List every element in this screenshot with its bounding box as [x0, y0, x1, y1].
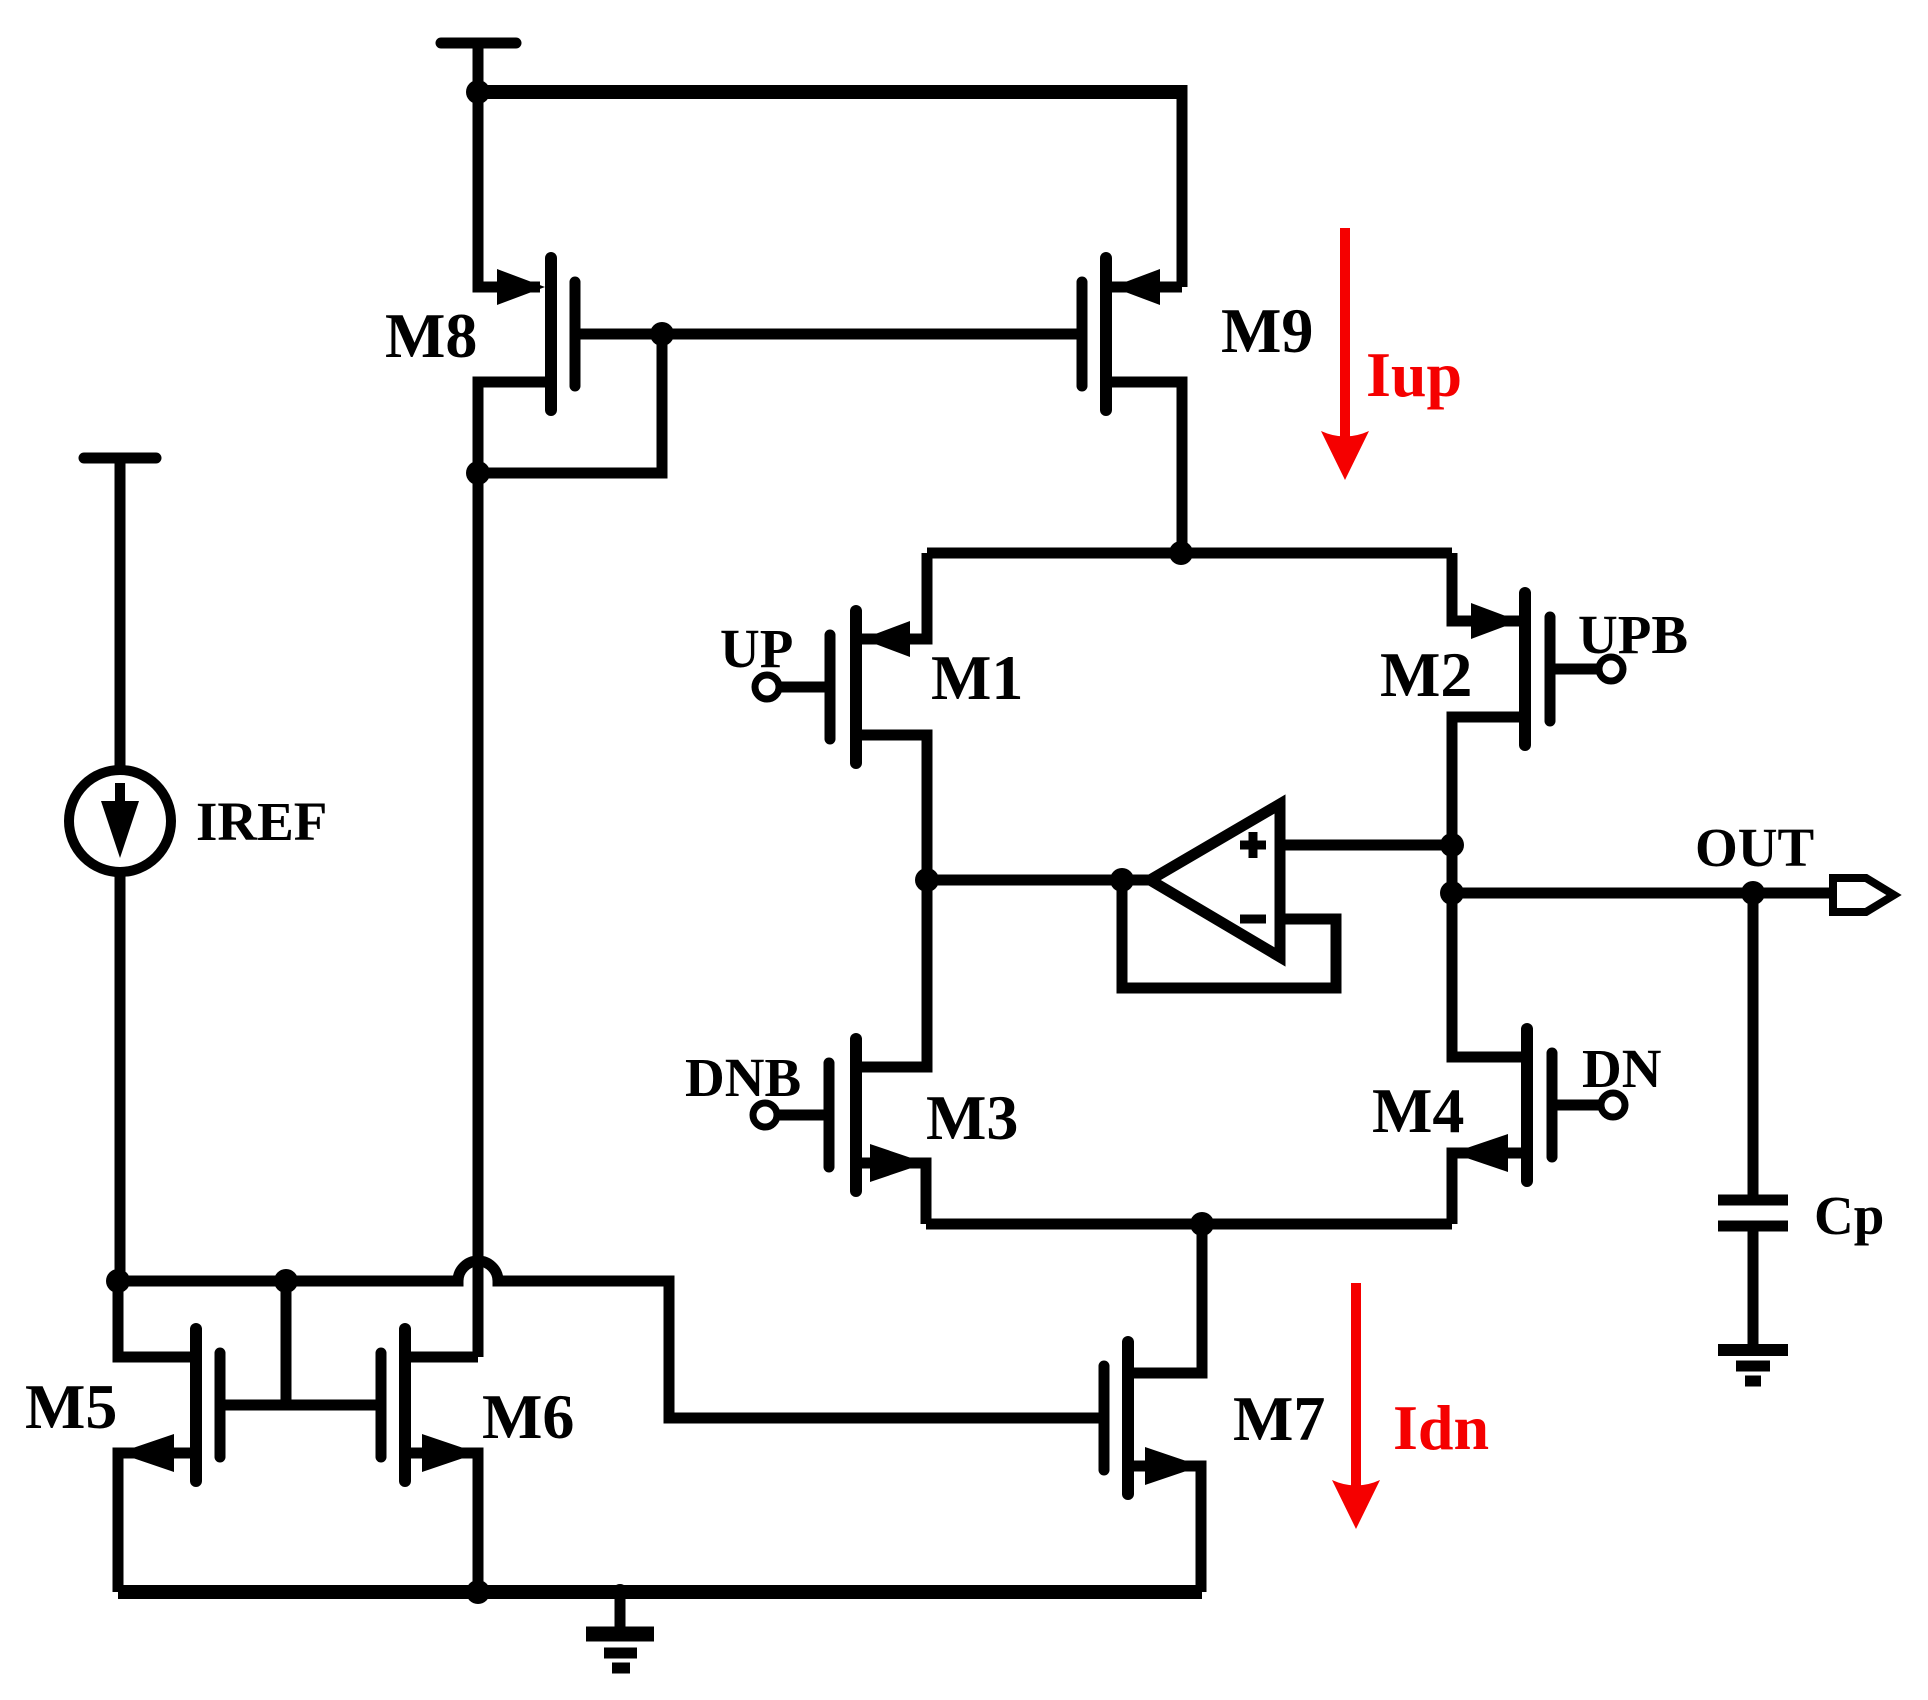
svg-text:M4: M4: [1372, 1075, 1464, 1146]
junction plus input node: [1440, 833, 1464, 857]
wire M2 source: [1452, 553, 1519, 621]
junction VDD rail node: [466, 80, 490, 104]
current arrow Idn: [1332, 1283, 1380, 1529]
wire M9 source: [1112, 282, 1182, 293]
transistor M2: [1471, 593, 1550, 745]
wire op-amp plus input: [1280, 840, 1452, 851]
transistor M7: [1104, 1342, 1201, 1494]
ground main: [586, 1584, 654, 1668]
wire M3 drain column: [862, 880, 927, 1067]
svg-text:Idn: Idn: [1393, 1392, 1489, 1463]
svg-text:OUT: OUT: [1695, 817, 1814, 878]
svg-text:M5: M5: [25, 1371, 117, 1442]
transistor M5: [118, 1329, 220, 1481]
wire op-amp feedback: [1122, 886, 1336, 988]
wire ground rail: [118, 1585, 1202, 1599]
svg-text:UPB: UPB: [1578, 604, 1688, 665]
current source IREF: [69, 770, 171, 872]
svg-text:Iup: Iup: [1366, 339, 1462, 410]
wire M4 drain: [1452, 893, 1521, 1057]
wire M9 drain: [1112, 382, 1182, 553]
junction tail node: [1190, 1212, 1214, 1236]
svg-text:M7: M7: [1233, 1383, 1325, 1454]
junction op-amp output node: [915, 868, 939, 892]
wire Cp bottom: [1748, 1226, 1759, 1349]
wire M5-M6 gate tee: [220, 1281, 381, 1405]
wire M3 gate: [778, 1110, 829, 1121]
op-amp U1: [1150, 804, 1280, 957]
wire M4 gate: [1552, 1100, 1601, 1111]
svg-text:Cp: Cp: [1814, 1185, 1884, 1246]
svg-text:M9: M9: [1221, 295, 1313, 366]
transistor M6: [381, 1329, 478, 1481]
svg-text:DN: DN: [1582, 1038, 1661, 1099]
transistor M9: [1082, 258, 1160, 410]
junction M5-M6 gate tap: [274, 1269, 298, 1293]
svg-text:M1: M1: [931, 642, 1023, 713]
terminal DN: [1601, 1093, 1625, 1117]
junction OUT node: [1440, 881, 1464, 905]
svg-text:M6: M6: [482, 1381, 574, 1452]
wire M8 gate: [575, 329, 662, 340]
wire M7 gate bias line with hop: [118, 1261, 1104, 1418]
wire M2 gate: [1550, 664, 1599, 675]
svg-text:UP: UP: [720, 618, 793, 679]
svg-text:DNB: DNB: [685, 1047, 801, 1108]
wire VDD top rail: [478, 85, 1182, 99]
wire M1 gate: [779, 682, 830, 693]
wire M6 source: [411, 1453, 478, 1592]
wire OUT: [1452, 888, 1833, 899]
power symbol VDD left: [84, 458, 156, 771]
wire Cp top: [1748, 893, 1759, 1196]
wire M2 drain: [1452, 717, 1519, 893]
wire M8 gate-drain link: [478, 334, 662, 473]
transistor M4: [1452, 1029, 1552, 1181]
wire M8 source: [478, 92, 540, 287]
junction M8 drain node: [466, 461, 490, 485]
terminal OUT: [1833, 878, 1894, 912]
ground Cp: [1718, 1350, 1788, 1381]
transistor M8: [497, 258, 575, 410]
wire M5 drain: [118, 1281, 190, 1357]
transistor M3: [829, 1039, 926, 1191]
transistor M1: [830, 611, 910, 763]
terminal UPB: [1599, 657, 1623, 681]
junction mirror node: [1169, 541, 1193, 565]
power symbol VDD top: [441, 43, 516, 92]
wire M8 drain bias column: [478, 382, 545, 1357]
junction feedback tap: [1110, 868, 1134, 892]
junction ground rail at M6: [466, 1580, 490, 1604]
wire M5 source: [118, 1453, 190, 1592]
wire M9 gate: [662, 329, 1082, 340]
svg-text:M3: M3: [926, 1082, 1018, 1153]
wire M3 source: [862, 1163, 926, 1224]
wire M7 drain: [1134, 1224, 1202, 1373]
junction M8 gate node: [650, 322, 674, 346]
svg-text:M8: M8: [385, 300, 477, 371]
wire M7 source: [1134, 1466, 1201, 1592]
wire source rail M1-M2: [927, 548, 1452, 559]
wire M9 source drop: [1177, 85, 1188, 287]
wire op-amp output: [927, 875, 1150, 886]
svg-text:IREF: IREF: [196, 791, 327, 852]
wire M4 source: [1452, 1153, 1521, 1224]
wire M1 source: [862, 553, 927, 639]
wire IREF to bias node: [115, 872, 126, 1281]
wire M1 drain: [862, 735, 927, 880]
junction Cp tap: [1741, 881, 1765, 905]
junction bias node left: [106, 1269, 130, 1293]
terminal UP: [755, 675, 779, 699]
wire tail rail: [926, 1219, 1452, 1230]
wire M6 drain: [411, 1352, 478, 1363]
svg-text:M2: M2: [1380, 639, 1472, 710]
current arrow Iup: [1321, 228, 1369, 480]
capacitor Cp: [1718, 1200, 1788, 1226]
terminal DNB: [753, 1103, 777, 1127]
